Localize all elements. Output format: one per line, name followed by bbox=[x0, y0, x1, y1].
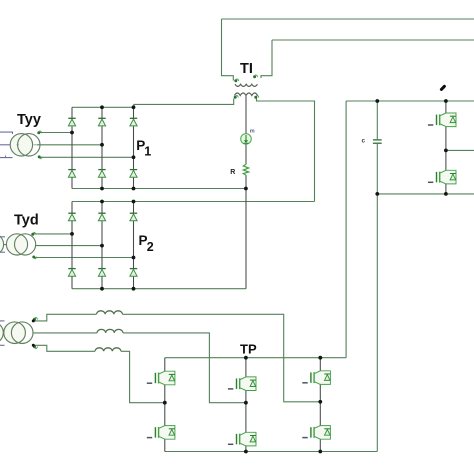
svg-text:TP: TP bbox=[240, 342, 257, 357]
svg-text:c: c bbox=[362, 137, 366, 144]
svg-text:R: R bbox=[230, 169, 235, 176]
svg-text:TI: TI bbox=[240, 61, 253, 77]
svg-text:2: 2 bbox=[147, 240, 154, 254]
svg-text:Tyd: Tyd bbox=[14, 213, 39, 229]
svg-text:m: m bbox=[250, 128, 255, 134]
svg-text:Tyy: Tyy bbox=[17, 112, 41, 128]
svg-text:1: 1 bbox=[144, 144, 151, 158]
